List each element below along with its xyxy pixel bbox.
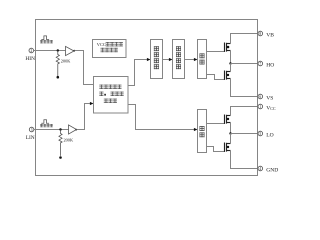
node HIN input pulse symbol: [41, 36, 49, 40]
wire LO node to pin: [231, 133, 259, 135]
pin 6 VS: [258, 94, 263, 99]
pin 5 LO: [258, 131, 263, 136]
node LIN input pulse symbol: [41, 120, 49, 124]
wire M2 source to VS: [231, 79, 259, 97]
wire buffer U1 output to logic box: [75, 51, 94, 85]
resistor R 200K (LIN pulldown): [59, 130, 62, 156]
pin 1 Vcc: [258, 104, 263, 109]
block level shift 电平位移: [151, 40, 163, 79]
pin 2 HIN circle: [29, 48, 34, 53]
label 逻辑输入 (HIN): [40, 40, 53, 43]
svg-text:VCC: VCC: [97, 42, 106, 47]
block logic control / dead time box: [94, 77, 129, 114]
buffer U1 (HIN): [66, 46, 75, 55]
wire M3 source to LO node: [230, 123, 232, 134]
wire logic box to level shift (up path, with arrow): [128, 60, 148, 86]
wire M3 drain to Vcc: [231, 107, 259, 116]
transistor M3 (low side upper MOSFET): [225, 115, 231, 124]
svg-text:VB: VB: [266, 33, 274, 39]
svg-text:VS: VS: [266, 96, 273, 102]
text 欠压保护: [101, 48, 118, 52]
svg-text:7: 7: [259, 62, 261, 66]
svg-text:4: 4: [259, 167, 261, 171]
wire driver to M3 gate: [207, 123, 225, 125]
transistor M4 (low side lower MOSFET): [225, 143, 231, 152]
svg-text:2: 2: [30, 49, 32, 53]
pin 8 VB: [258, 31, 263, 36]
block low side driver 驱动: [198, 110, 207, 153]
wire logic box to low side driver (down path, with arrow): [128, 105, 195, 130]
node LO junction: [229, 132, 231, 134]
junction node on HIN wire: [57, 49, 59, 51]
buffer U2 (LIN): [69, 125, 77, 134]
text 逻辑控制电路、死区时间电路: [99, 85, 123, 103]
IC outer boundary box: [36, 20, 258, 176]
transistor M2 (high side lower MOSFET): [225, 71, 231, 80]
label 逻辑输入 (LIN): [40, 124, 53, 127]
wire M2 drain to HO node: [230, 64, 232, 72]
wire driver to M4 gate (stepped): [207, 147, 225, 152]
wire HO node to pin: [231, 63, 259, 65]
node HO junction: [229, 62, 231, 64]
wire HIN to buffer: [34, 50, 66, 52]
block VCC/VB undervoltage protection box: [93, 40, 127, 58]
svg-text:5: 5: [259, 132, 261, 136]
wire M4 source to GND: [231, 151, 259, 169]
wire M1 drain to VB: [231, 34, 259, 44]
svg-text:LO: LO: [266, 133, 273, 139]
wire M1 source to HO node: [230, 51, 232, 64]
junction node on LIN wire: [59, 128, 61, 130]
transistor M1 (high side upper MOSFET): [225, 43, 231, 52]
wire driver to M2 gate (stepped): [207, 75, 225, 80]
wire driver to M1 gate: [207, 51, 225, 53]
svg-text:VCC: VCC: [266, 106, 276, 112]
pin 4 GND: [258, 166, 263, 171]
svg-text:200K: 200K: [64, 138, 74, 143]
resistor R 200K (HIN pulldown): [56, 51, 59, 77]
wire arrow pulse filter to high side driver: [185, 59, 196, 61]
wire arrow level shift to pulse filter: [163, 59, 171, 61]
wire LIN to buffer: [34, 129, 69, 131]
svg-text:200K: 200K: [61, 59, 71, 64]
svg-text:GND: GND: [266, 168, 278, 174]
svg-text:HIN: HIN: [25, 56, 35, 62]
wire buffer U2 output to logic box (with arrow): [77, 104, 92, 130]
svg-text:3: 3: [31, 128, 33, 132]
pin 3 LIN circle: [29, 127, 34, 132]
wire M4 drain to LO node: [230, 134, 232, 144]
svg-text:1: 1: [259, 105, 261, 109]
svg-text:8: 8: [259, 32, 261, 36]
pin 7 HO: [258, 61, 263, 66]
svg-text:LIN: LIN: [26, 135, 35, 141]
svg-text:HO: HO: [266, 63, 274, 69]
block pulse filter 脉冲滤波: [173, 40, 185, 79]
block high side driver 驱动: [198, 40, 207, 79]
svg-text:6: 6: [259, 95, 261, 99]
